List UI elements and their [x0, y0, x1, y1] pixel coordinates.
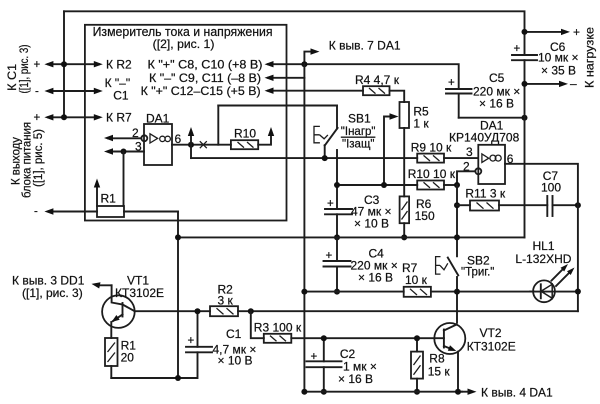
node dot x457/bus [454, 234, 460, 240]
svg-text:VT2: VT2 [480, 326, 502, 340]
wire pin3 arrow left [108, 151, 144, 153]
svg-text:К выв. 4 DA1: К выв. 4 DA1 [481, 386, 553, 400]
wire arrow row K R2 [48, 63, 99, 65]
wire pin2 lead [457, 171, 475, 185]
wire VT1 base arrow [97, 284, 112, 286]
wire up arrow at 191 [190, 131, 192, 145]
node dot R7line/SB2 [454, 289, 460, 295]
svg-text:HL1: HL1 [533, 239, 555, 253]
wire row +5V inside box to R4 [268, 90, 363, 92]
node dot C1/collector [195, 308, 201, 314]
svg-text:150: 150 [415, 209, 435, 223]
wire R1 bottom to ground wire [110, 366, 112, 378]
svg-text:КТ3102Е: КТ3102Е [467, 340, 516, 354]
svg-text:R1: R1 [101, 192, 117, 206]
svg-text:+: + [573, 25, 580, 39]
mark X cut [200, 141, 207, 148]
wire R6 bottom [403, 223, 405, 237]
wire arrow row K minus C1 [48, 90, 99, 92]
wire K vyv 7 DA1 branch [304, 52, 313, 65]
node dot C7/x578 [575, 202, 581, 208]
resistor R11 [457, 204, 470, 206]
wire vertical net x304 [303, 64, 305, 392]
wire output minus arrow [525, 83, 563, 85]
node dot R10line/C3 [334, 182, 340, 188]
svg-text:+: + [327, 198, 334, 210]
svg-text:([1], рис. 5): ([1], рис. 5) [33, 129, 45, 187]
node dot wiper/R10line [381, 182, 387, 188]
svg-text:К "–" С9, С11 (–8 В): К "–" С9, С11 (–8 В) [149, 71, 261, 85]
svg-text:SB1: SB1 [348, 112, 371, 126]
svg-text:+: + [34, 112, 41, 124]
wire pin6 right net x578 [505, 164, 578, 311]
svg-text:R10 10 к: R10 10 к [408, 167, 456, 181]
svg-text:× 35 В: × 35 В [541, 64, 576, 78]
label rotated K C1 [7, 64, 19, 91]
wire bottom left y378 [111, 352, 197, 378]
svg-text:К "+" С8, С10 (+8 В): К "+" С8, С10 (+8 В) [148, 58, 263, 72]
svg-text:× 10 В: × 10 В [354, 217, 389, 231]
wire top bus from node A to C6 [64, 11, 525, 55]
node dot pin3 branch [121, 149, 127, 155]
wire R3 branch [251, 311, 264, 338]
node dot SB1 bottom [322, 155, 328, 161]
wire R4 to R5 [390, 91, 405, 102]
svg-text:-: - [35, 86, 39, 98]
svg-text:100: 100 [541, 181, 561, 195]
wire R3 to VT2 base [291, 337, 444, 339]
node dot x457/R11 [454, 202, 460, 208]
capacitor C5 [446, 88, 472, 90]
node dot pin6 junction [188, 142, 194, 148]
resistor R4 [363, 86, 390, 95]
op-amp DA1 (left) [144, 124, 172, 165]
resistor R5 potentiometer [400, 102, 410, 128]
wire arrow row K R7 [48, 116, 99, 118]
node dot R7line/x304 [301, 289, 307, 295]
wire pin6 line [172, 144, 231, 146]
node dot R6/bus [401, 234, 407, 240]
wire x178 vertical [177, 212, 179, 379]
capacitor C4 [336, 237, 338, 261]
resistor R6 [400, 196, 410, 223]
wire collector long line y311 [135, 310, 210, 312]
LED HL1 [530, 291, 578, 293]
svg-text:([1], рис. 3): ([1], рис. 3) [19, 44, 31, 93]
node dot +8V junction [301, 61, 307, 67]
svg-text:× 10 В: × 10 В [218, 354, 253, 368]
switch SB2 [448, 258, 458, 276]
potentiometer R1 (top left) [48, 211, 97, 213]
wire R5 to R6 [403, 128, 405, 196]
capacitor C3 [325, 208, 352, 210]
svg-text:–: – [570, 77, 577, 91]
wire vertical x218 [217, 106, 219, 145]
wire x457 vertical [456, 185, 458, 256]
svg-text:L-132XHD: L-132XHD [515, 252, 571, 266]
wire R7 to HL1 [431, 291, 534, 293]
svg-text:× 16 В: × 16 В [479, 97, 514, 111]
capacitor C1 [186, 346, 212, 348]
transistor VT1 [102, 295, 135, 328]
wire R10 right lead and up arrow [258, 131, 271, 145]
svg-text:R9 10 к: R9 10 к [411, 141, 452, 155]
svg-text:× 16 В: × 16 В [358, 271, 393, 285]
capacitor C6 [512, 54, 537, 56]
wire pin3 branch down to R1 [123, 152, 125, 207]
svg-text:([2], рис. 1): ([2], рис. 1) [153, 37, 215, 51]
svg-text:R11 3 к: R11 3 к [465, 187, 505, 201]
svg-text:С1: С1 [226, 327, 242, 341]
op-amp DA1 (right) KR140UD708 [478, 145, 505, 184]
wire R1 right lead [124, 211, 178, 213]
svg-text:+: + [34, 59, 41, 71]
svg-text:([1], рис. 3): ([1], рис. 3) [22, 286, 83, 300]
node dot row3/x64 [61, 114, 67, 120]
svg-text:С1: С1 [113, 89, 129, 103]
label rotated K выходу блока питания [11, 137, 23, 185]
resistor R10 right [417, 181, 444, 190]
svg-text:+: + [311, 351, 318, 363]
wire C5 bottom line [459, 117, 525, 119]
switch SB1 [336, 106, 338, 129]
resistor R9 [417, 154, 444, 163]
svg-text:К "+" С12–С15 (+5 В): К "+" С12–С15 (+5 В) [141, 84, 261, 98]
resistor R8 [416, 338, 418, 351]
svg-text:КТ3102Е: КТ3102Е [115, 286, 164, 300]
node dot C2/bottom [321, 389, 327, 395]
box Измеритель тока и напряжения [85, 25, 287, 221]
node dot pin2/R10 [454, 182, 460, 188]
wire SB1 column down to C3 [336, 150, 338, 209]
node dot row1/x64 [61, 61, 67, 67]
svg-text:К R7: К R7 [106, 111, 132, 125]
wire left vertical x64 [63, 11, 65, 117]
node dot x178/y378 [175, 375, 181, 381]
svg-text:+: + [448, 77, 455, 89]
svg-text:К С1: К С1 [7, 64, 19, 91]
svg-text:3: 3 [466, 145, 473, 159]
resistor R3 [264, 334, 292, 343]
svg-text:К R2: К R2 [106, 58, 132, 72]
svg-text:× 16 В: × 16 В [338, 372, 373, 386]
wire row +8V inside box to C5 corner [268, 64, 459, 89]
node dot C3/bus [334, 234, 340, 240]
wire R11 to C7 [499, 204, 547, 206]
svg-text:20: 20 [121, 351, 135, 365]
label rotated K нагрузке [583, 27, 597, 88]
wire main bus y237 [178, 236, 525, 238]
capacitor C2 [323, 338, 325, 361]
wire R9 right lead to pin3 [444, 157, 478, 159]
wire horizontal y105.5 [218, 105, 337, 107]
node dot C4/R7line [334, 289, 340, 295]
svg-text:-: - [34, 206, 38, 218]
wire R5 wiper [384, 117, 393, 186]
wire R9 line [191, 157, 417, 159]
node dot R2/R3 [248, 308, 254, 314]
wire output plus arrow [525, 31, 565, 33]
svg-text:"Інагр": "Інагр" [341, 126, 376, 138]
node dot x178/bus [175, 234, 181, 240]
svg-text:10 к: 10 к [405, 273, 428, 287]
svg-text:15 к: 15 к [428, 365, 451, 379]
wire R10 right line [337, 184, 417, 186]
svg-text:К нагрузке: К нагрузке [583, 27, 597, 88]
svg-text:3 к: 3 к [218, 294, 234, 308]
svg-text:R4 4,7 к: R4 4,7 к [355, 73, 400, 87]
svg-text:+: + [188, 335, 195, 347]
svg-text:"Триг.": "Триг." [461, 267, 494, 279]
resistor R2 [210, 306, 238, 316]
svg-text:+: + [514, 43, 521, 55]
svg-text:R3 100 к: R3 100 к [254, 321, 302, 335]
wire pin2 arrow left [108, 137, 141, 139]
svg-text:SB2: SB2 [467, 254, 490, 268]
wire bottom bus right [304, 391, 462, 393]
svg-text:+: + [326, 250, 333, 262]
capacitor C7 [546, 196, 548, 216]
wire HL1 light arrows [552, 269, 564, 281]
svg-text:DA1: DA1 [146, 112, 170, 126]
svg-text:10 мк ×: 10 мк × [538, 51, 579, 65]
wire pin6 down branch to R9 line [190, 145, 192, 158]
node dot HL1/x578 [575, 289, 581, 295]
wire R1 wiper up arrow [96, 182, 98, 206]
wire row -8V inside box [268, 77, 304, 79]
svg-text:К выв. 7 DA1: К выв. 7 DA1 [329, 39, 401, 53]
resistor R7 [304, 291, 403, 293]
node dot C5line/x524 [522, 115, 528, 121]
svg-text:блока питания: блока питания [22, 122, 34, 198]
svg-text:R8: R8 [429, 352, 445, 366]
svg-text:1 к: 1 к [413, 117, 429, 131]
resistor R1 (emitter) [105, 338, 118, 366]
transistor VT2 [434, 323, 465, 354]
svg-text:С5: С5 [489, 71, 505, 85]
svg-text:R10: R10 [234, 127, 256, 141]
svg-text:"Ізащ": "Ізащ" [342, 139, 375, 151]
resistor R10 (inside box) [231, 140, 258, 149]
svg-text:КР140УД708: КР140УД708 [449, 131, 520, 145]
